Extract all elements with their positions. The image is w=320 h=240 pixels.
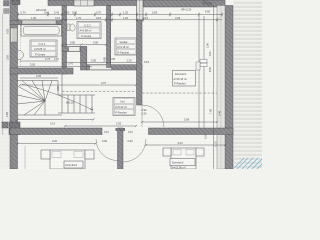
svg-text:G.S.2: G.S.2 — [84, 23, 91, 27]
dashed line hall — [62, 91, 136, 93]
dashed dim extension line — [20, 25, 22, 67]
svg-text:7.00: 7.00 — [209, 108, 213, 114]
wall vestiar dormitor1 — [137, 20, 143, 105]
wall bathroom south — [10, 68, 73, 74]
door gap GS2 — [69, 47, 80, 51]
svg-text:3.24: 3.24 — [178, 141, 184, 145]
wall left top corner block — [12, 0, 20, 5]
roof hatch area right side — [234, 3, 262, 167]
svg-text:0.90: 0.90 — [128, 139, 134, 143]
terrace blue hatch bottom-right — [234, 158, 262, 169]
bed dormitor2 — [163, 148, 204, 170]
room label GS1 — [30, 40, 57, 57]
svg-text:0.05: 0.05 — [110, 57, 116, 61]
room label dormitor1 — [173, 71, 196, 87]
svg-text:0.15: 0.15 — [104, 131, 109, 134]
wall GS2 vestiar divider — [107, 6, 111, 68]
wall bathroom east — [62, 6, 67, 75]
wall GS2 south — [62, 47, 87, 52]
rotated dim texts left — [5, 28, 10, 117]
wall bathroom north — [10, 21, 22, 25]
nook dims — [62, 62, 137, 64]
dashed line dormitor1 — [142, 92, 217, 94]
door arc dormitor2 — [123, 139, 146, 162]
door gap vestiar — [90, 65, 111, 69]
pier between bedroom doors — [118, 128, 124, 169]
svg-text:1.90: 1.90 — [206, 42, 210, 48]
window bathroom north — [22, 21, 56, 25]
svg-text:Hol: Hol — [121, 100, 125, 104]
room label GS2 — [77, 22, 101, 39]
hall dim 3.07 — [20, 84, 136, 86]
svg-text:A=5.42 m²: A=5.42 m² — [115, 105, 127, 109]
stair walk line — [22, 84, 93, 110]
hall dim 2.93 — [65, 125, 136, 127]
left margin dim line — [2, 14, 4, 135]
pier hatched bottom-left — [2, 122, 8, 128]
dormitor2 dim 3.24 — [146, 144, 225, 146]
pier top right — [202, 0, 208, 5]
svg-text:6.50: 6.50 — [208, 66, 212, 72]
wall left bottom corner block — [9, 122, 20, 135]
svg-text:A=5.85 m²: A=5.85 m² — [34, 47, 46, 51]
toilet GS2 — [67, 24, 70, 31]
dim texts row1 — [21, 8, 211, 15]
paper background — [0, 0, 262, 169]
bathtub — [21, 25, 62, 36]
stairs lower flight — [58, 95, 95, 113]
room label hol — [113, 98, 135, 116]
svg-text:3.07: 3.07 — [101, 81, 107, 85]
dim texts row2 — [31, 16, 181, 20]
dormitor1 dim 3.09 — [142, 121, 217, 123]
plan interior background — [10, 0, 233, 169]
bed dormitor3 — [41, 150, 94, 169]
svg-text:0.46: 0.46 — [218, 110, 222, 116]
door arc dormitor3 — [96, 139, 118, 161]
rotated dims in stair — [56, 56, 107, 91]
svg-text:0.80: 0.80 — [70, 41, 76, 45]
window left wall bathroom — [11, 28, 18, 42]
wall vestiar south — [87, 65, 143, 70]
svg-text:G.S.1: G.S.1 — [39, 42, 46, 46]
svg-text:0.15: 0.15 — [54, 58, 59, 61]
pier hatched top-left — [4, 1, 10, 7]
stairs winder fan — [18, 74, 63, 115]
wall middle horizontal — [10, 128, 102, 135]
svg-text:Dormitor2: Dormitor2 — [172, 161, 184, 165]
level marker boxes — [200, 60, 207, 63]
svg-text:8x0.18: 8x0.18 — [66, 101, 74, 105]
svg-text:A=15.14 m²: A=15.14 m² — [174, 77, 188, 81]
svg-text:P-Gresie: P-Gresie — [35, 52, 46, 56]
rotated dim texts right — [204, 42, 222, 146]
svg-text:0.15: 0.15 — [128, 131, 133, 134]
wall left exterior — [10, 0, 18, 169]
wall top band — [48, 0, 137, 6]
dim row1 top — [18, 13, 222, 17]
washbasin — [18, 50, 24, 60]
bathroom dim 2.75 — [20, 60, 58, 62]
svg-text:HP+2.20: HP+2.20 — [181, 8, 192, 12]
door arc dormitor1 — [142, 105, 164, 127]
vertical dim lines right inside — [198, 16, 200, 128]
svg-text:A=0.98 m²: A=0.98 m² — [80, 29, 92, 33]
scan noise overlay — [0, 2, 262, 166]
svg-text:0.55: 0.55 — [6, 28, 10, 34]
window top band — [74, 0, 94, 6]
svg-text:2.06: 2.06 — [36, 74, 42, 78]
hall dim 3.13 — [18, 119, 94, 121]
svg-text:0.90: 0.90 — [93, 41, 99, 45]
svg-text:Dormitor3: Dormitor3 — [66, 163, 78, 167]
wardrobe line dormitor3 — [24, 146, 26, 169]
bathroom dim 3.05 — [18, 66, 93, 68]
svg-text:3.20: 3.20 — [52, 139, 58, 143]
wall GS2 east column — [81, 47, 87, 71]
dormitor3 dim 3.20 — [18, 143, 96, 145]
svg-text:0.90: 0.90 — [102, 139, 108, 143]
assorted dim ticks — [16, 43, 226, 146]
svg-text:0.85: 0.85 — [103, 56, 107, 62]
dim row2 top — [18, 18, 222, 22]
wall right exterior — [225, 6, 233, 170]
svg-text:2.65: 2.65 — [6, 54, 10, 60]
shaft — [137, 0, 144, 20]
svg-text:P-Gresie: P-Gresie — [81, 34, 92, 38]
gs2 dim 0.80 0.90 — [62, 44, 106, 46]
room label vestiar — [115, 38, 137, 55]
